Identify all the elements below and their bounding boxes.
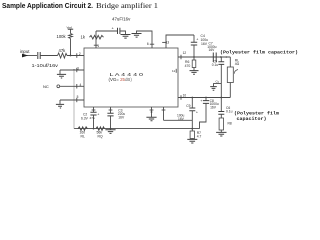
resistor bus left (160 RL): [78, 127, 87, 131]
wire pin (x151) to ground: [151, 107, 153, 117]
node junction C9: [191, 97, 193, 99]
wire C6 to R8: [220, 114, 222, 118]
wire C1 to R 47k: [40, 55, 57, 57]
svg-text:6.3V: 6.3V: [81, 117, 89, 121]
capacitor C1 (1-10uf/16v): [38, 52, 40, 59]
node bus dot R7: [191, 128, 193, 130]
wire NC pin4: [60, 85, 84, 87]
wire C9 column lower with branch: [164, 111, 193, 129]
wire C9 column upper: [191, 98, 193, 109]
svg-text:10: 10: [183, 94, 187, 98]
pin tick bottom C3: [109, 109, 113, 111]
svg-text:47uF/16v: 47uF/16v: [112, 17, 131, 22]
node junction R6: [193, 56, 195, 58]
node junction 100k: [70, 55, 72, 57]
resistor R7 box: [190, 131, 194, 139]
svg-text:Sample Application Circuit 2.: Sample Application Circuit 2.: [2, 1, 93, 10]
ground (C5): [210, 87, 217, 91]
capacitor 47uF/16v: [118, 28, 120, 34]
wire 100k to Vref bar: [70, 29, 72, 33]
svg-text:(Polyester film: (Polyester film: [234, 111, 279, 117]
svg-text:1-10uf/16v: 1-10uf/16v: [32, 63, 59, 68]
speaker arrow: [234, 70, 238, 74]
svg-text:R8: R8: [228, 121, 232, 125]
svg-text:(Polyester film capacitor): (Polyester film capacitor): [220, 49, 298, 55]
node bus dot C3: [110, 128, 112, 130]
wire pin5: [60, 99, 84, 101]
svg-text:Vref: Vref: [67, 25, 73, 29]
wire pin13 to C4 top: [166, 35, 194, 48]
resistor bus right (56k): [96, 127, 105, 131]
svg-text:4.7: 4.7: [197, 135, 202, 139]
resistor 47k: [58, 53, 68, 58]
node bus dot C2: [93, 128, 95, 130]
svg-text:capacitor): capacitor): [237, 116, 267, 122]
wire input to C1: [24, 55, 37, 57]
wire ground bus: [74, 128, 200, 130]
capacitor C3 220u/16V: [107, 113, 113, 116]
svg-text:+: +: [200, 99, 202, 103]
wire C4 column upper: [193, 35, 195, 42]
capacitor C6 0.1u: [218, 112, 224, 115]
pin 6 tick: [150, 43, 154, 45]
svg-text:Bridge amplifier 1: Bridge amplifier 1: [96, 1, 158, 10]
wire pin10 output rail: [178, 97, 230, 99]
svg-text:100k: 100k: [57, 34, 67, 39]
node junction C6: [220, 97, 222, 99]
pin 5 tick: [76, 98, 78, 102]
op-amp U1 LA4440 IC outline: [84, 48, 178, 107]
pin 4 tick: [76, 84, 78, 89]
wire C8 column upper: [205, 98, 207, 101]
wire R7 column: [191, 129, 193, 131]
wire 47k to pin2: [67, 55, 84, 57]
svg-text:16V: 16V: [210, 106, 217, 110]
wire to R6: [193, 57, 195, 60]
wire C6 column upper: [220, 98, 222, 112]
ground (pin3): [57, 74, 66, 78]
capacitor C7 1000u/16V: [213, 53, 216, 63]
node junction C8: [205, 97, 207, 99]
capacitor C5 0.1u: [218, 62, 224, 65]
svg-text:13: 13: [166, 41, 170, 45]
wire C2 column: [93, 107, 95, 129]
svg-text:+: +: [97, 113, 99, 117]
svg-text:6: 6: [147, 42, 149, 46]
wire R6 to ground: [193, 68, 195, 71]
svg-text:2: 2: [79, 52, 81, 56]
pin tick bottom x163: [162, 109, 166, 111]
wire pin1 to C 47uF: [96, 30, 118, 32]
ground (47uF return): [121, 35, 131, 39]
svg-text:12: 12: [183, 51, 187, 55]
svg-text:4: 4: [80, 83, 82, 87]
svg-text:16V: 16V: [209, 48, 216, 52]
wire 47uF to ground: [120, 31, 126, 34]
resistor R6 470: [192, 60, 196, 68]
resistor R8 box: [219, 118, 223, 130]
input arrow: [22, 54, 28, 58]
pin tick bottom C2: [92, 109, 96, 111]
pin 3 tick: [76, 68, 78, 72]
ground (pin x151): [146, 117, 156, 121]
svg-text:47k: 47k: [59, 48, 67, 53]
wire RL column bottom: [229, 83, 231, 98]
node junction C5: [220, 56, 222, 58]
pin tick bottom x151: [150, 109, 154, 111]
wire C8 jog to bus: [200, 103, 207, 128]
node junction 2: [226, 56, 228, 58]
wire R8 to ground: [220, 130, 222, 132]
pin 12 tick: [180, 55, 182, 59]
ground (bus below C3): [105, 130, 115, 134]
wire pin1 column: [95, 31, 97, 48]
wire C5 to ground jog: [214, 64, 222, 97]
capacitor C8 1000u/16V: [203, 101, 209, 104]
svg-text:3: 3: [77, 66, 79, 70]
ground (pin5): [56, 104, 64, 108]
svg-text:16V: 16V: [178, 117, 185, 121]
capacitor C2 47u/6.3V: [90, 112, 96, 115]
svg-text:16V: 16V: [118, 116, 125, 120]
svg-text:(VG= 25dB): (VG= 25dB): [109, 77, 133, 82]
ground (pin6): [132, 34, 142, 38]
pin 10 tick: [180, 95, 182, 99]
node junction pin3: [73, 69, 75, 71]
resistor 100k: [69, 34, 73, 39]
wire pin6 column: [137, 31, 153, 48]
wire C4 column lower: [193, 45, 195, 57]
resistor RL load box: [227, 67, 233, 83]
ground (R6): [190, 71, 199, 75]
svg-text:+: +: [196, 110, 198, 114]
wire C3 column: [110, 107, 112, 129]
svg-text:NC: NC: [43, 84, 49, 89]
svg-text:0.1u: 0.1u: [212, 63, 219, 67]
capacitor C9 100u/16V: [189, 108, 195, 111]
svg-text:4Ω: 4Ω: [235, 62, 240, 66]
node Vref T-bar: [68, 28, 73, 30]
pin 1 tick: [94, 44, 98, 46]
svg-text:470: 470: [185, 64, 191, 68]
wire pin3: [60, 69, 84, 71]
svg-text:Cc: Cc: [216, 80, 220, 84]
ground (R8): [216, 132, 226, 136]
wire R7 to ground: [191, 138, 193, 141]
svg-text:RL: RL: [81, 135, 85, 139]
wire 100k riser: [70, 39, 72, 56]
wire pin3 to ground: [59, 70, 61, 74]
svg-text:+: +: [196, 37, 198, 41]
svg-text:RQ: RQ: [98, 135, 103, 139]
pin 2 tick: [76, 53, 78, 58]
svg-text:47u: 47u: [90, 116, 95, 120]
wire vertical feedback column: [73, 70, 75, 129]
wire C5 column upper: [220, 57, 222, 62]
svg-text:11: 11: [172, 69, 175, 73]
pin 13 tick: [162, 41, 166, 43]
svg-text:input: input: [20, 49, 30, 54]
node NC circle: [57, 85, 60, 88]
node dot x151: [151, 111, 153, 113]
svg-text:C9: C9: [186, 104, 190, 108]
resistor 1k: [90, 35, 104, 39]
wire RL column top: [229, 57, 231, 67]
wire pin (x163) column: [163, 107, 165, 120]
ground (R7): [187, 139, 197, 143]
wire pin12 output rail: [178, 56, 230, 58]
wire pin5 to ground: [59, 100, 61, 104]
svg-text:5: 5: [77, 95, 79, 99]
svg-text:1: 1: [97, 44, 99, 48]
capacitor C4 100u/16V: [191, 42, 197, 45]
svg-text:0.1u: 0.1u: [226, 110, 233, 114]
pin 11 tick: [175, 69, 177, 73]
